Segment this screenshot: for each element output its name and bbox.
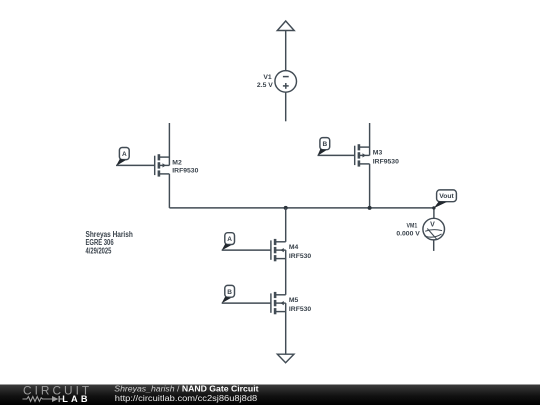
voltage source V1 circle [275, 71, 297, 93]
wire M3 source/body stub up [369, 123, 371, 155]
svg-text:IRF530: IRF530 [289, 306, 312, 313]
wire M3 drain down to output rail [369, 164, 371, 208]
svg-text:Vout: Vout [439, 193, 454, 200]
CircuitLab logo circuit squiggle (resistor + diode) [23, 396, 64, 402]
svg-text:4/29/2025: 4/29/2025 [86, 246, 112, 255]
svg-text:B: B [322, 141, 327, 148]
svg-text:LAB: LAB [62, 394, 90, 404]
wire VM1 bottom stub [433, 240, 435, 251]
flag Vout (output node) [434, 190, 457, 208]
svg-text:Shreyas_harish / NAND Gate Cir: Shreyas_harish / NAND Gate Circuit [114, 384, 259, 393]
svg-text:IRF9530: IRF9530 [373, 158, 399, 165]
voltmeter VM1 circle [423, 218, 445, 240]
svg-text:IRF9530: IRF9530 [172, 168, 198, 175]
junction dot M4 drain on rail [284, 206, 288, 210]
wire flag B to M3 gate [318, 154, 355, 156]
V1 minus sign [283, 76, 289, 78]
junction dot M3 drain on rail [368, 206, 372, 210]
mosfet M3 (PMOS IRF9530) [355, 144, 370, 166]
junction corner at Vout [432, 206, 435, 209]
flag B (input B to M5 gate) [222, 285, 235, 303]
mosfet M2 (PMOS IRF9530) [155, 154, 170, 176]
svg-text:M3: M3 [373, 149, 383, 156]
VM1 meter gauge arcs and needle [425, 230, 442, 232]
svg-text:http://circuitlab.com/cc2sj86u: http://circuitlab.com/cc2sj86u8j8d8 [115, 394, 258, 403]
svg-text:V1: V1 [263, 74, 272, 81]
power supply VDD symbol (up triangle) [277, 21, 294, 31]
wire VDD to V1 positive terminal [285, 31, 287, 71]
svg-text:2.5 V: 2.5 V [257, 82, 273, 89]
ground symbol (down triangle) [277, 354, 294, 363]
wire flag A to M4 gate [222, 249, 271, 251]
svg-text:M4: M4 [289, 244, 299, 251]
wire V1 negative terminal stub [285, 92, 287, 121]
mosfet M5 (NMOS IRF530) [271, 292, 286, 314]
svg-text:A: A [122, 151, 127, 158]
wire M2 source/body stub up [168, 123, 170, 165]
wire M2 drain down to output rail [168, 174, 170, 208]
svg-text:M5: M5 [289, 297, 299, 304]
wire Vout node down to voltmeter [433, 208, 435, 219]
svg-text:0.000 V: 0.000 V [396, 231, 420, 238]
svg-text:M2: M2 [172, 159, 182, 166]
footer black bar [0, 385, 540, 405]
wire M5 source/body down to ground [285, 303, 287, 354]
flag A (input A to M2 gate) [116, 148, 129, 167]
wire output rail M2 drain to Vout [169, 207, 434, 209]
V1 plus sign [283, 85, 289, 87]
svg-text:A: A [227, 236, 232, 243]
svg-text:V: V [430, 222, 435, 229]
flag A (input A to M4 gate) [222, 233, 235, 251]
wire flag A to M2 gate [116, 164, 155, 166]
svg-text:VM1: VM1 [407, 223, 418, 230]
flag B (input B to M3 gate) [317, 138, 329, 156]
wire flag B to M5 gate [222, 302, 271, 304]
svg-text:B: B [227, 289, 232, 296]
wire M4 source/body down to M5 drain [285, 250, 287, 295]
wire M4 drain from rail [285, 208, 287, 242]
svg-text:IRF530: IRF530 [289, 253, 312, 260]
mosfet M4 (NMOS IRF530) [271, 239, 286, 261]
